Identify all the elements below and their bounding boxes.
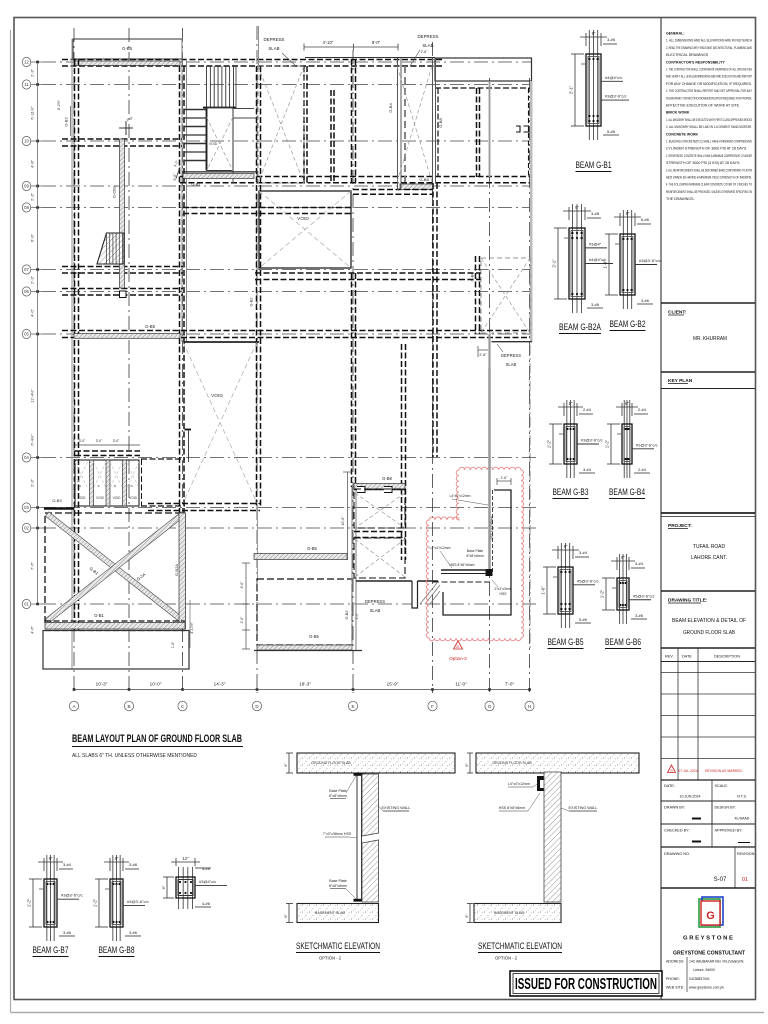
horizontal section right label [195,884,227,886]
svg-text:S-07: S-07 [714,877,727,883]
svg-text:HSS 8"x8"x6mm: HSS 8"x8"x6mm [449,563,474,567]
stair void cross [207,117,234,171]
svg-text:3-#4: 3-#4 [583,467,592,472]
beam grid E dashed [351,273,353,487]
svg-text:L4"x4"x12mm: L4"x4"x12mm [450,494,471,498]
svg-text:DEPRESS: DEPRESS [501,353,521,358]
grid line G [489,78,491,693]
svg-text:VOID: VOID [211,393,223,399]
svg-text:GROUND FLOOR SLAB: GROUND FLOOR SLAB [683,630,735,636]
box below G-B8 [354,489,405,491]
svg-text:BEAM G-B8: BEAM G-B8 [99,945,135,955]
section G-B3 top dim [558,406,583,408]
left dim bracket bottom rooms [245,563,247,649]
beam section G-B6 [619,554,621,624]
svg-text:REINFORCEMENT SHALL BE PROVIDE: REINFORCEMENT SHALL BE PROVIDED, UNLESS … [666,190,752,194]
svg-text:LAHORE CANT.: LAHORE CANT. [691,555,727,561]
section G-B5 bottom bars label [575,622,591,624]
beam grid A dashed [74,60,76,631]
svg-text:VOID: VOID [78,496,86,500]
svg-text:9": 9" [115,856,119,861]
wall E double solid [351,487,353,650]
dim 7-0 top of detail [497,480,511,482]
void box 1 [259,191,351,268]
svg-text:APPROVED BY:: APPROVED BY: [715,829,743,833]
svg-text:SLAB: SLAB [370,608,381,613]
diagonal brace G-B1 [45,512,184,623]
svg-text:THE DRAWINGS.: THE DRAWINGS. [666,197,694,201]
porch box below [43,631,189,670]
svg-text:06: 06 [24,289,29,294]
section G-B3 top bars label [579,413,593,415]
svg-text:1. ALL DIMENSIONS AND ALL ELEV: 1. ALL DIMENSIONS AND ALL ELEVATIONS ARE… [666,39,752,43]
dim 2'-6 right [478,349,488,351]
svg-text:2'-1": 2'-1" [552,259,557,268]
svg-text:EXISTING WALL: EXISTING WALL [382,806,411,810]
grid line A [73,28,75,693]
svg-text:4-#6: 4-#6 [202,901,211,906]
svg-text:10.JUN.2024: 10.JUN.2024 [680,795,701,799]
svg-text:L4"x4"x12mm: L4"x4"x12mm [430,546,451,550]
section G-B1 top dim [580,36,607,38]
svg-text:OPTION - 2: OPTION - 2 [495,956,518,961]
section G-B4 stirrup labels [632,448,654,450]
svg-text:G-B2: G-B2 [250,298,254,307]
section G-B8 top bars label [125,868,139,870]
column strip G-CB1 [120,139,125,288]
beam section G-B5 [560,543,562,628]
void bay 2 cross [183,342,257,503]
beam section G-B2A [572,204,574,313]
grid line 09 [42,185,532,187]
section G-B5 top dim [552,549,579,551]
page shadow bottom edge [11,1012,765,1014]
svg-text:2-#4: 2-#4 [638,407,647,412]
svg-text:1'-2": 1'-2" [547,439,552,448]
svg-text:11: 11 [24,82,29,87]
svg-text:VOID: VOID [297,216,309,222]
svg-text:BEAM G-B6: BEAM G-B6 [605,637,641,647]
section G-B1 stirrup labels [601,80,623,82]
grid line 04 [42,457,537,459]
elevation 1 ground floor slab [297,753,455,773]
beam at grid 10 [62,138,182,140]
base plate marker [486,569,493,576]
svg-text:2'-3": 2'-3" [30,275,35,284]
svg-text:SKETCHMATIC ELEVATION: SKETCHMATIC ELEVATION [478,941,562,951]
section G-B1 left dim [574,54,576,126]
svg-text:REVISION AS MARKED.: REVISION AS MARKED. [705,769,743,773]
elevation 2 ground floor slab [476,753,639,773]
svg-text:G-B2A: G-B2A [174,564,179,576]
section G-B1 bottom bars label [603,134,619,136]
section G-B6 left dim [605,578,607,610]
svg-text:3-#4: 3-#4 [635,561,644,566]
svg-text:4. THE FOLLOWING MINIMUM CL: 4. THE FOLLOWING MINIMUM CLEAR CONCRETE … [666,183,752,187]
date scale row [711,780,713,824]
svg-text:6": 6" [625,401,629,406]
beam section G-B1 [588,30,590,140]
svg-text:02: 02 [24,526,29,531]
bottom dimension line [74,689,530,691]
svg-text:8'-0": 8'-0" [372,40,381,45]
svg-text:#3@3'-6"c/c: #3@3'-6"c/c [639,258,661,263]
section G-B2 top bars label [637,223,651,225]
svg-text:#4@4"c/c: #4@4"c/c [605,75,622,80]
grid line F [432,42,434,693]
beam at grid 03 [148,503,260,505]
svg-text:01: 01 [456,645,460,649]
svg-text:G-B5: G-B5 [145,324,156,329]
slab edge bottom [254,650,362,652]
svg-text:CONCRETE WORK: CONCRETE WORK [666,132,699,136]
canopy hatch trapezoid [97,233,124,264]
beam left of cross box [475,256,477,334]
svg-text:7'-6": 7'-6" [30,561,35,570]
svg-text:10'-6": 10'-6" [341,516,345,526]
svg-text:2. THE CONTRACTOR SHALL: 2. THE CONTRACTOR SHALL REPORT AND GET A… [666,89,752,93]
svg-text:1. BUILDING CONCRETE(PCC) SH: 1. BUILDING CONCRETE(PCC) SHALL HAVE A M… [666,140,752,144]
wall grid G grey [489,81,491,177]
svg-text:L4"x4"x12mm: L4"x4"x12mm [508,782,530,786]
grid line C [182,28,184,693]
svg-text:01: 01 [670,769,674,773]
hatch on grid 12 beam left wing [75,61,180,66]
svg-text:G-B1: G-B1 [191,182,201,187]
beam offset below grid 09 [353,189,433,191]
svg-text:GROUND FLOOR SLAB: GROUND FLOOR SLAB [311,761,351,765]
svg-text:1'-2": 1'-2" [605,439,610,448]
svg-text:2-#4: 2-#4 [638,467,647,472]
grid line 01 [42,603,537,605]
beam at grid 06 left wing [62,288,183,290]
section G-B8 left dim [98,879,100,927]
grid line 12 [42,61,532,63]
svg-text:G-B6: G-B6 [307,546,317,551]
svg-text:PHONE:: PHONE: [666,977,680,981]
svg-text:G-B2: G-B2 [64,117,69,127]
grid line 02 [42,527,537,529]
steel detail top plate [441,569,487,571]
svg-text:3-#6: 3-#6 [591,302,600,307]
svg-text:3-#6: 3-#6 [129,930,138,935]
svg-text:GENERAL:: GENERAL: [666,32,685,36]
svg-text:9": 9" [626,211,630,216]
svg-text:G R E Y S T O N E: G R E Y S T O N E [683,936,733,942]
title block divider [660,18,662,1000]
section G-B8 bottom bars label [125,935,141,937]
svg-text:ISSUED FOR CONSTRUCTION: ISSUED FOR CONSTRUCTION [515,976,657,993]
elevation 2 existing wall hatch [544,772,561,902]
svg-text:DESCRIPTION: DESCRIPTION [714,655,740,659]
section G-B5 top bars label [575,556,589,558]
cross-braced box outline [45,513,185,623]
svg-text:TUFAIL ROAD: TUFAIL ROAD [693,544,725,550]
svg-text:9": 9" [621,555,625,560]
wall with notch bottom [356,580,412,582]
svg-text:03: 03 [24,505,29,510]
depress slab area 2 cross [397,58,399,190]
section G-B7 top bars label [59,868,73,870]
svg-text:BASEMENT SLAB: BASEMENT SLAB [494,911,524,915]
section G-B6 stirrup labels [629,599,651,601]
section G-B7 stirrup labels [57,898,79,900]
svg-text:BEAM G-B3: BEAM G-B3 [553,487,589,497]
svg-text:12": 12" [182,856,189,861]
svg-text:1'-6": 1'-6" [541,586,546,595]
section G-B2A left dim [557,228,559,299]
svg-text:HSS: HSS [500,592,508,596]
beam section G-B7 [46,855,48,941]
grid line D [256,26,258,693]
svg-text:7'-0": 7'-0" [505,682,515,687]
svg-text:#5@3'-6"c/c: #5@3'-6"c/c [577,578,599,583]
section G-B2A stirrup labels [585,247,607,249]
grid line B [128,28,130,693]
svg-text:BEAM G-B5: BEAM G-B5 [548,637,584,647]
svg-text:6'-9": 6'-9" [30,233,35,242]
svg-text:G-B5: G-B5 [309,634,319,639]
diagonal marks right of notch [420,583,437,604]
svg-text:EFFECTIVE EXECUTION OF WORK AT: EFFECTIVE EXECUTION OF WORK AT SITE. [666,104,740,108]
beam G-B5 top box [73,39,182,59]
svg-text:1'-2": 1'-2" [600,589,605,598]
svg-text:3'-0": 3'-0" [96,439,103,443]
beam dashed top right [435,87,530,89]
svg-text:BEAM LAYOUT PLAN OF GROUND FLO: BEAM LAYOUT PLAN OF GROUND FLOOR SLAB [72,733,242,745]
svg-text:BEAM G-B4: BEAM G-B4 [609,487,645,497]
svg-text:DESIGN BY:: DESIGN BY: [715,806,737,810]
svg-text:G-B3: G-B3 [52,498,62,503]
svg-text:2. ALL MASONRY SHALL BE LAID I: 2. ALL MASONRY SHALL BE LAID IN 1:6 CEME… [666,125,752,129]
svg-text:G-B8: G-B8 [382,476,392,481]
svg-text:DEPRESS: DEPRESS [264,37,285,42]
svg-text:9": 9" [49,856,53,861]
revision entry red [668,765,676,773]
section G-B3 stirrup labels [577,443,599,445]
issued for construction box [510,971,662,996]
svg-text:2'-3": 2'-3" [30,192,35,201]
slab edge below grid 05 [183,341,259,343]
slab edge right depress [492,341,533,343]
svg-text:KEY PLAN: KEY PLAN [668,378,693,384]
room divider dashed x=330 [330,90,332,183]
svg-text:05: 05 [24,332,29,337]
svg-text:MR. KHURRAM: MR. KHURRAM [693,336,727,342]
svg-text:15'-9": 15'-9" [387,682,399,687]
svg-text:18'-3": 18'-3" [299,682,311,687]
horizontal section left dim [166,877,168,898]
svg-text:VOID: VOID [129,496,137,500]
beam at grid 07 left wing [62,266,183,268]
svg-text:HSS 4"x4"x6mm: HSS 4"x4"x6mm [490,516,494,540]
depress slab area 1 cross [258,66,304,183]
svg-text:01: 01 [24,602,29,607]
svg-text:10'-0": 10'-0" [150,682,162,687]
notch detail upper right [516,126,529,132]
svg-text:BEAM G-B1: BEAM G-B1 [576,160,612,170]
steel detail outline [443,490,511,615]
beam at grid 12 [62,59,444,61]
svg-text:#3@3'-6"c/c: #3@3'-6"c/c [605,94,627,99]
horizontal section bottom label [195,906,211,908]
svg-text:2'-6": 2'-6" [479,353,487,357]
section G-B4 top dim [616,406,638,408]
svg-text:#5@3'-6"c/c: #5@3'-6"c/c [633,593,655,598]
beam G-B6 hatch strip [254,554,347,560]
svg-text:2'-3": 2'-3" [30,68,35,77]
beam grid C dashed [179,66,181,513]
svg-text:1'-6": 1'-6" [171,641,175,649]
svg-text:14'-3": 14'-3" [214,682,226,687]
svg-text:BRICK WORK: BRICK WORK [666,111,690,115]
svg-text:1'-2": 1'-2" [93,898,98,907]
svg-text:04235857001: 04235857001 [689,977,710,981]
svg-text:1'-2": 1'-2" [27,898,32,907]
stair core box [207,108,234,171]
beam grid F dashed [432,183,434,457]
horizontal section top dim [171,861,200,863]
beam G-B5 hatch strip bottom [257,645,352,650]
svg-text:ADDRESS:: ADDRESS: [666,960,684,964]
svg-text:WEB SITE:: WEB SITE: [666,986,684,990]
svg-text:G-B4: G-B4 [388,103,393,113]
revision table header [661,647,755,649]
svg-text:2'-6": 2'-6" [421,50,429,54]
beam at grid 07 right [255,272,481,274]
svg-text:BEAM G-B2: BEAM G-B2 [610,319,646,329]
svg-text:2-#4: 2-#4 [583,407,592,412]
left dimension run line [37,62,39,604]
section G-B6 top bars label [631,567,645,569]
beam section G-B3 [566,400,568,478]
svg-text:9": 9" [575,205,579,210]
wall grid C solid [181,39,183,342]
section G-B4 left dim [610,424,612,464]
elevation 2 basement dim [469,904,471,923]
svg-text:Base Plate: Base Plate [329,879,346,883]
wall F solid upper [432,58,434,183]
svg-text:14C ABUBAKAR blkr. Rd,Zubairy/: 14C ABUBAKAR blkr. Rd,Zubairy/W, [689,960,744,964]
section G-B1 top bars label [603,43,617,45]
svg-text:FOR ANY CHANGE OR MODIFICATION: FOR ANY CHANGE OR MODIFICATION, IF REQUI… [666,82,752,86]
svg-text:9": 9" [564,544,568,549]
beam dashed pair mid box [354,531,405,533]
svg-text:10: 10 [24,139,29,144]
beam section G-B8 [112,855,114,941]
grid line H [529,78,531,693]
svg-text:07.JUL.2024: 07.JUL.2024 [678,769,697,773]
svg-text:REV.: REV. [665,655,674,659]
svg-text:#3@3'-6"c/c: #3@3'-6"c/c [61,893,83,898]
svg-text:SLAB: SLAB [268,46,279,51]
svg-text:6'-11½": 6'-11½" [30,106,35,120]
beam section G-B4 [623,400,625,478]
svg-text:B: B [127,704,130,709]
svg-text:2'-6": 2'-6" [240,616,244,624]
svg-text:3-#6: 3-#6 [641,298,650,303]
svg-text:CONTRACTOR'S RESPONSIBILITY: CONTRACTOR'S RESPONSIBILITY [666,60,726,64]
elevation 1 basement dim [288,904,290,923]
wall D grey continuation [257,505,259,580]
svg-text:Option-2: Option-2 [449,656,467,661]
elevation 2 slab dim [469,753,471,773]
svg-text:HSS 8"x8"x6mm: HSS 8"x8"x6mm [499,806,526,810]
stair upper flight treads [206,66,208,107]
section G-B3 left dim [552,424,554,464]
svg-text:Lahore, 54000: Lahore, 54000 [693,968,715,972]
section G-B7 top dim [38,861,63,863]
svg-text:#3@3'-6"c/c: #3@3'-6"c/c [581,438,603,443]
svg-text:5-#6: 5-#6 [579,617,588,622]
svg-text:GROUND FLOOR SLAB: GROUND FLOOR SLAB [492,761,532,765]
column marker on grid 06 beam [120,291,127,298]
beam grid D dashed [256,66,258,507]
svg-text:2'-0": 2'-0" [355,612,359,620]
small void boxes [75,460,139,506]
svg-text:#3@3'-6"c/c: #3@3'-6"c/c [636,442,658,447]
box below G-B8 lower [354,538,405,578]
svg-text:VOID: VOID [113,496,121,500]
vertical hatch band G-B2A [179,513,186,629]
svg-text:REVISION:: REVISION: [737,852,755,856]
section G-B4 top bars label [634,413,648,415]
svg-text:3'-0": 3'-0" [79,439,86,443]
svg-text:STRENGTH OF 3000 PSI (3 KSI) A: STRENGTH OF 3000 PSI (3 KSI) AT 28 DAYS. [666,161,740,165]
svg-text:PROJECT:: PROJECT: [668,523,692,529]
svg-text:DEPRESS: DEPRESS [365,599,385,604]
svg-text:1'-9": 1'-9" [603,260,608,269]
svg-text:G-B6: G-B6 [471,273,475,282]
section G-B2 left dim [608,234,610,295]
svg-text:8"x8"x6mm: 8"x8"x6mm [466,554,483,558]
grid line 05 [42,333,532,335]
revision triangle marker [454,641,463,649]
section G-B3 bottom bars label [579,472,595,474]
svg-text:3-#6: 3-#6 [635,613,644,618]
svg-text:VOID: VOID [209,142,218,146]
svg-text:4'-10": 4'-10" [323,40,334,45]
beam grid E dashed upper [351,59,353,183]
svg-text:Base Plate: Base Plate [467,549,484,553]
stair left flight treads [184,109,207,111]
column marker 1'-0" [119,127,133,129]
svg-text:3-#6: 3-#6 [607,37,616,42]
svg-text:6-#6: 6-#6 [641,217,650,222]
client section [661,302,755,304]
section G-B2A bottom bars label [587,307,603,309]
steel detail dashed line [433,581,490,583]
svg-text:SLAB: SLAB [506,362,517,367]
svg-text:DATE:: DATE: [664,784,675,788]
svg-text:7"x3"x38mm HSS: 7"x3"x38mm HSS [323,832,352,836]
svg-text:8'-2½": 8'-2½" [57,99,61,110]
section G-B8 stirrup labels [123,904,145,906]
revision cloud option-2 [426,467,523,641]
wall grid H grey band [530,81,533,342]
grid line 08 [42,207,532,209]
svg-text:5'-0": 5'-0" [173,173,177,181]
svg-text:CYLINDER STRENGTH OF 3000 PSI: CYLINDER STRENGTH OF 3000 PSI AT 28 DAYS… [666,147,747,151]
svg-text:Base Plate: Base Plate [329,789,346,793]
elevation 1 HSS column [356,774,358,900]
svg-text:BEAM ELEVATION & DETAIL OF: BEAM ELEVATION & DETAIL OF [672,618,746,624]
svg-text:8"x8"x6mm: 8"x8"x6mm [329,884,347,888]
svg-text:SKETCHMATIC ELEVATION: SKETCHMATIC ELEVATION [296,941,380,951]
beam at grid 09 [180,176,530,178]
svg-text:G-B8: G-B8 [438,118,443,128]
svg-text:3-#8: 3-#8 [591,211,600,216]
